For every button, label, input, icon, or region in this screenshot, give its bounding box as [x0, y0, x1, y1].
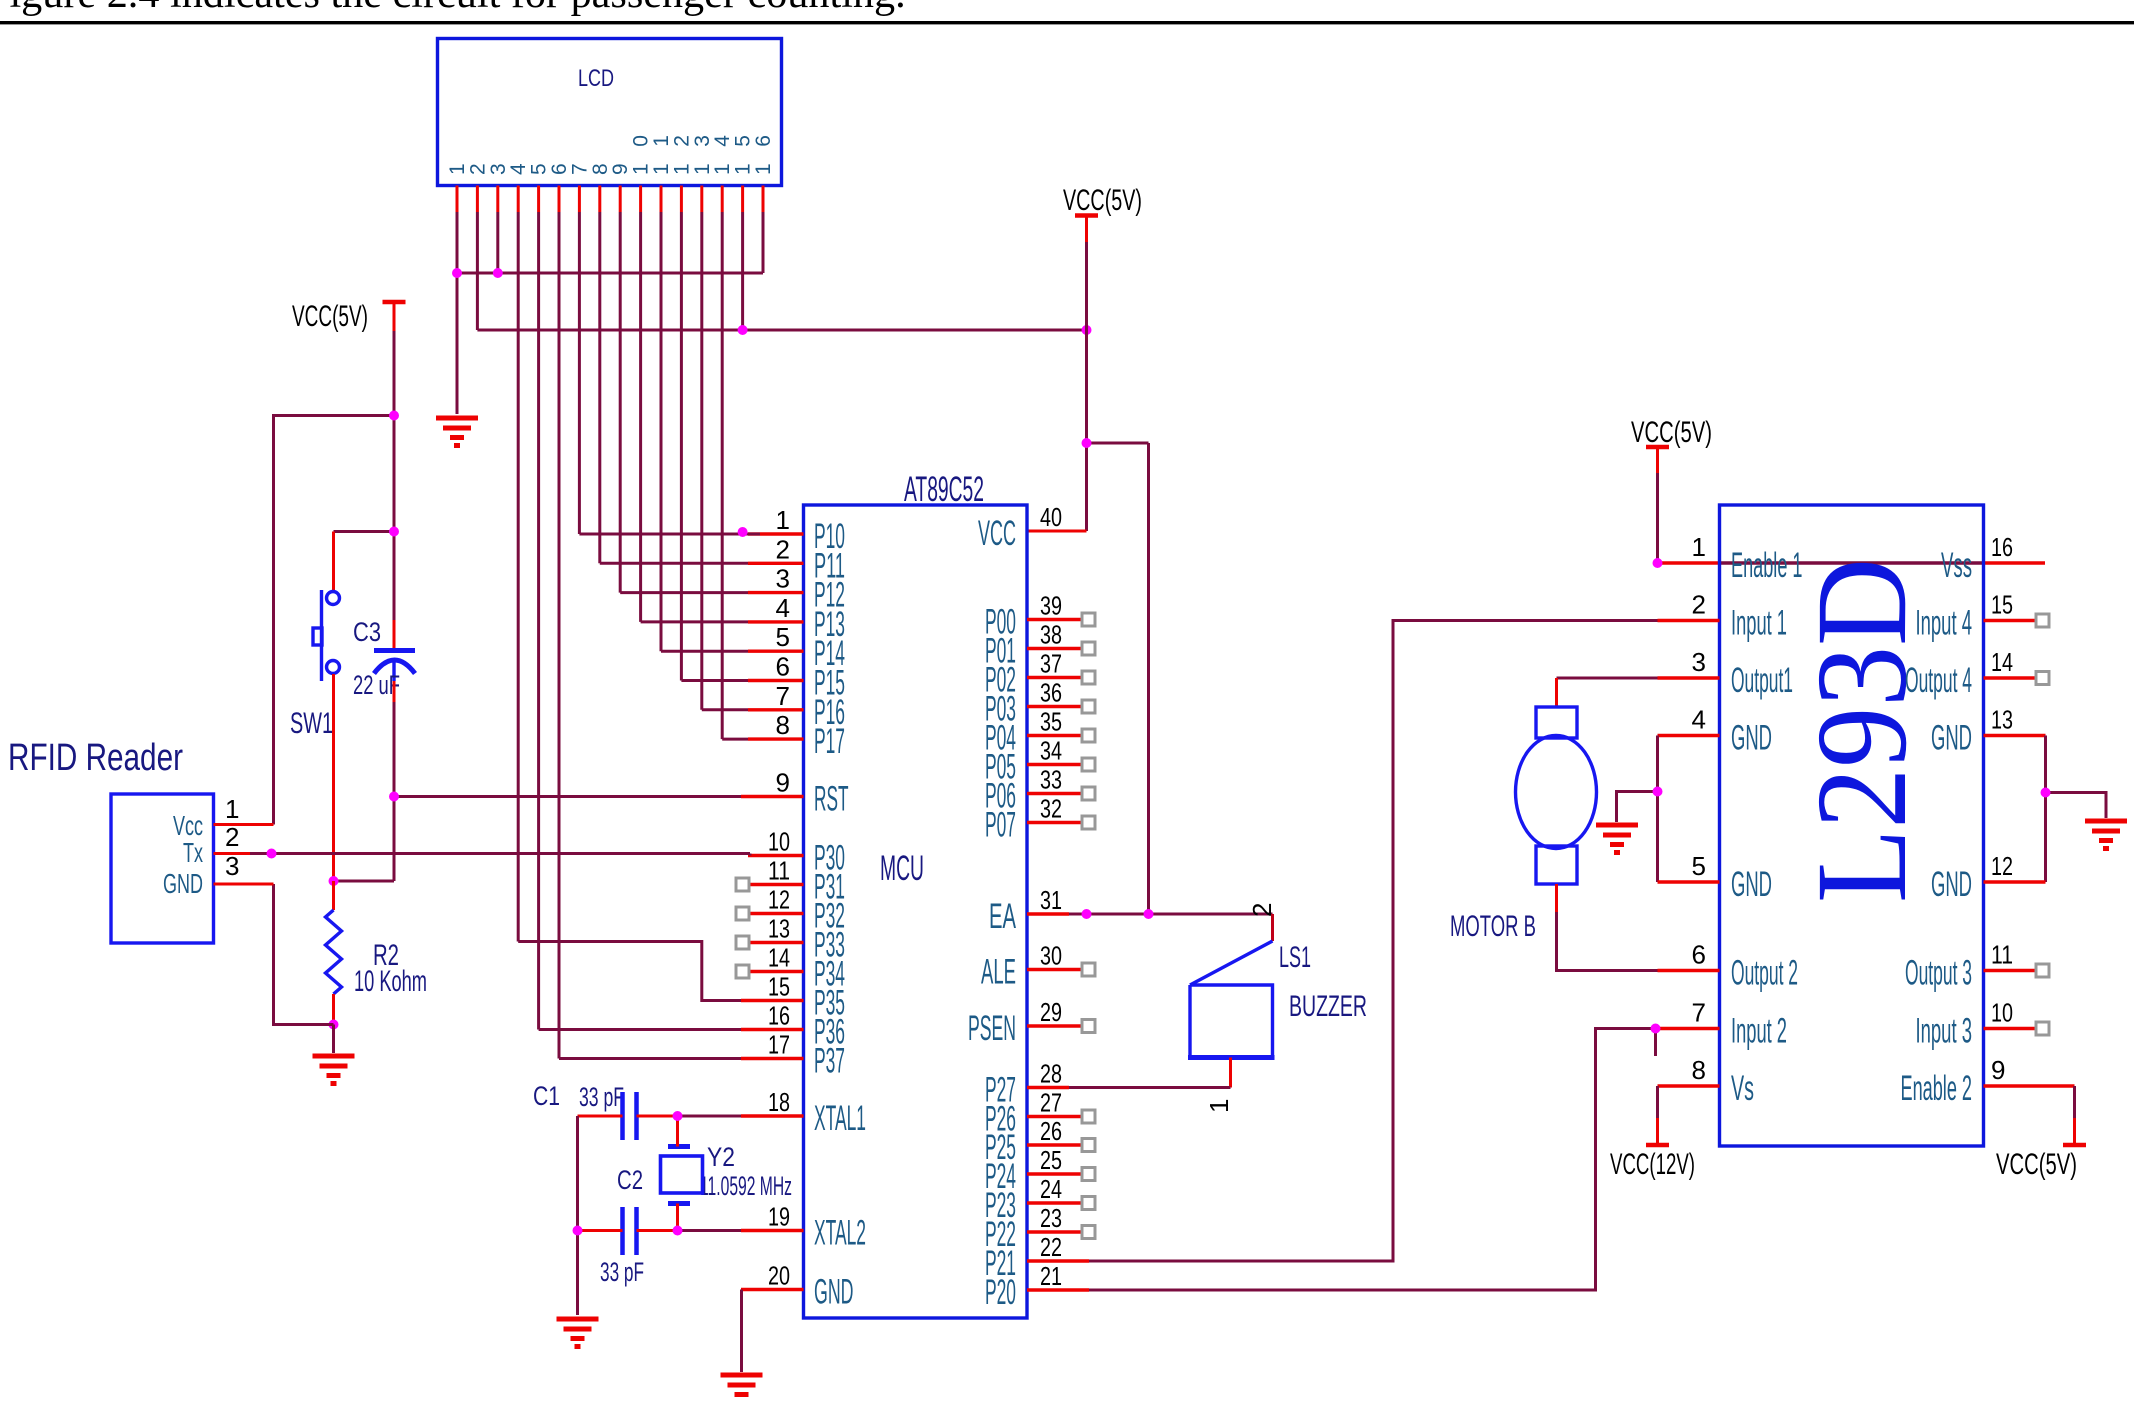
wire dangling stub below Input2 — [1654, 1031, 1657, 1056]
wire branch down to EA — [1147, 443, 1150, 914]
svg-text:12: 12 — [1991, 851, 2013, 881]
wire Output1 to motor — [1557, 677, 1658, 680]
svg-text:EA: EA — [989, 897, 1016, 936]
ground below MCU GND pin — [721, 1375, 763, 1395]
svg-text:VCC(5V): VCC(5V) — [1063, 184, 1142, 217]
svg-text:L293D: L293D — [1790, 558, 1934, 903]
wire buzzer top stub — [1271, 914, 1274, 941]
wire motor bottom to Output2 — [1555, 884, 1558, 912]
wire buzzer bottom stub — [1229, 1058, 1232, 1088]
node Tx dot — [267, 849, 277, 859]
svg-text:2: 2 — [776, 534, 790, 564]
wire C3/SW1 bottom joining — [334, 880, 395, 883]
svg-text:8: 8 — [776, 710, 790, 740]
svg-text:9: 9 — [1991, 1055, 2005, 1085]
wire Output2 stub — [1658, 969, 1720, 972]
wire branch to RFID Vcc — [274, 416, 395, 825]
svg-text:27: 27 — [1040, 1088, 1062, 1118]
svg-text:RFID Reader: RFID Reader — [8, 737, 183, 779]
svg-text:Input 3: Input 3 — [1916, 1012, 1973, 1051]
svg-text:3: 3 — [1692, 647, 1706, 677]
svg-text:VCC: VCC — [978, 514, 1016, 553]
svg-text:XTAL2: XTAL2 — [814, 1214, 866, 1253]
svg-text:11: 11 — [1991, 940, 2013, 970]
wire Input4 stub + square — [1984, 619, 2037, 622]
wire vcc bus — [477, 329, 1086, 332]
node vcc bus to vcc line — [1082, 325, 1092, 335]
svg-text:SW1: SW1 — [290, 707, 333, 740]
svg-text:7: 7 — [776, 681, 790, 711]
wire Input3 stub + square — [1984, 1027, 2037, 1030]
wires LCD pins7-14 down to P10-P17 rows — [578, 212, 581, 534]
svg-text:31: 31 — [1040, 885, 1062, 915]
LCD display box — [438, 39, 782, 186]
node stray dot on P10 wire — [738, 527, 748, 537]
node right gnd junction — [2041, 788, 2051, 798]
svg-text:8: 8 — [1692, 1055, 1706, 1085]
svg-text:7: 7 — [1692, 998, 1706, 1028]
wire crystal bottom stub — [676, 1204, 679, 1231]
wire R2 bottom to ground — [332, 1025, 335, 1054]
svg-text:14: 14 — [768, 943, 790, 973]
svg-text:Figure 2.4 indicates the circu: Figure 2.4 indicates the circuit for pas… — [0, 0, 906, 17]
wire vcc corner to MCU pin40 — [1027, 530, 1087, 533]
wire P20 route to Input 2 — [1089, 1029, 1656, 1291]
ground below R2 — [313, 1056, 355, 1086]
svg-text:GND: GND — [1931, 865, 1972, 904]
svg-text:VCC(5V): VCC(5V) — [292, 300, 368, 333]
svg-text:GND: GND — [163, 868, 203, 899]
wire LCD pin5 to P36 — [539, 1028, 741, 1031]
wire below C3 to reset node — [393, 681, 396, 702]
node vcc branch — [1082, 438, 1092, 448]
wire EA net — [1069, 913, 1273, 916]
svg-text:MOTOR B: MOTOR B — [1450, 910, 1536, 943]
svg-text:Output 3: Output 3 — [1905, 954, 1972, 993]
wire Output3 stub + square — [1984, 969, 2037, 972]
svg-text:GND: GND — [1931, 719, 1972, 758]
node EA dot A — [1082, 909, 1092, 919]
wire Input1 stub — [1658, 619, 1720, 622]
svg-text:P37: P37 — [814, 1042, 845, 1081]
svg-text:VCC(12V): VCC(12V) — [1610, 1148, 1695, 1181]
wire LCD pin3 down to gnd bus — [496, 212, 499, 273]
wire Enable2 to VCC(5V) — [1984, 1084, 2075, 1087]
wire gnd branch left — [1617, 792, 1658, 823]
svg-text:Input 4: Input 4 — [1916, 604, 1973, 643]
svg-text:19: 19 — [768, 1202, 790, 1232]
wire LCD pin6 down — [558, 212, 561, 1059]
ground right of L293D — [2085, 821, 2127, 851]
wire Enable1/Vss net across chip — [1658, 561, 1720, 564]
svg-text:36: 36 — [1040, 678, 1062, 708]
svg-text:39: 39 — [1040, 591, 1062, 621]
svg-text:32: 32 — [1040, 794, 1062, 824]
svg-text:AT89C52: AT89C52 — [904, 470, 984, 509]
svg-text:3: 3 — [776, 564, 790, 594]
wire LCD pin15 down to vcc bus — [741, 212, 744, 330]
svg-text:C1: C1 — [533, 1081, 560, 1111]
svg-text:VCC(5V): VCC(5V) — [1631, 416, 1712, 449]
svg-text:LCD: LCD — [578, 65, 614, 92]
wire vcc vertical reset net — [393, 331, 396, 620]
svg-text:GND: GND — [814, 1273, 854, 1312]
svg-text:2: 2 — [225, 822, 239, 852]
svg-text:35: 35 — [1040, 707, 1062, 737]
svg-text:5: 5 — [1692, 851, 1706, 881]
svg-text:Y2: Y2 — [707, 1142, 735, 1172]
svg-text:14: 14 — [1991, 647, 2013, 677]
wire Output1 stub — [1658, 676, 1720, 679]
svg-text:20: 20 — [768, 1261, 790, 1291]
wire XTAL2 net — [578, 1229, 623, 1232]
wire LCD pin6 to P37 — [559, 1057, 741, 1060]
svg-text:6: 6 — [1692, 940, 1706, 970]
svg-text:Output1: Output1 — [1731, 661, 1793, 700]
node sw1 top junction — [389, 527, 399, 537]
svg-text:Vss: Vss — [1941, 546, 1972, 585]
node xtal1 junction — [673, 1111, 683, 1121]
MCU left pin stubs — [748, 532, 804, 535]
svg-text:15: 15 — [1991, 590, 2013, 620]
svg-text:2: 2 — [1692, 590, 1706, 620]
svg-text:10: 10 — [1991, 998, 2013, 1028]
svg-text:P20: P20 — [985, 1273, 1016, 1312]
wire Output4 stub + square — [1984, 676, 2037, 679]
svg-text:Vs: Vs — [1731, 1069, 1754, 1108]
node vcc-rfid junction — [389, 411, 399, 421]
RFID Reader box — [111, 794, 214, 943]
wire GND4/GND5 bracket — [1658, 734, 1720, 737]
wire Input2 stub — [1656, 1027, 1720, 1030]
wire RFID GND stub — [214, 883, 274, 886]
svg-text:1: 1 — [1204, 1099, 1234, 1113]
svg-text:VCC(5V): VCC(5V) — [1996, 1148, 2077, 1181]
svg-text:10: 10 — [768, 827, 790, 857]
svg-text:11.0592 MHz: 11.0592 MHz — [700, 1171, 792, 1201]
svg-text:24: 24 — [1040, 1174, 1062, 1204]
wire RFID Tx to MCU P30 — [214, 852, 251, 855]
wire RFID GND to R2 bottom — [274, 884, 334, 1025]
svg-text:ALE: ALE — [981, 953, 1016, 992]
svg-text:Output 4: Output 4 — [1905, 661, 1972, 700]
wire SW1 bottom stub — [332, 674, 335, 881]
wire LCD pin1 down to ground — [456, 212, 459, 414]
svg-text:16: 16 — [768, 1001, 790, 1031]
wires LCD data to P10..P17 — [579, 533, 760, 536]
power VCC(5V) bottom right — [2063, 1143, 2086, 1148]
wire MCU GND down — [740, 1290, 743, 1373]
LCD pin stubs — [456, 186, 459, 213]
wire caps gnd vertical — [576, 1116, 579, 1315]
wire gnd bus — [457, 272, 763, 275]
svg-text:21: 21 — [1040, 1261, 1062, 1291]
svg-text:16: 16 — [1991, 532, 2013, 562]
svg-text:16: 16 — [752, 135, 775, 175]
node R2 bottom junction — [329, 1020, 339, 1030]
node C2 left junction — [573, 1226, 583, 1236]
svg-text:4: 4 — [1692, 705, 1706, 735]
MCU P31-P34 unconnected squares — [736, 878, 749, 891]
buzzer LS1 — [1188, 941, 1275, 1058]
svg-text:22: 22 — [1040, 1232, 1062, 1262]
power VCC(12V) — [1646, 1143, 1669, 1148]
svg-text:33: 33 — [1040, 765, 1062, 795]
svg-text:C2: C2 — [617, 1165, 643, 1195]
svg-text:10 Kohm: 10 Kohm — [354, 965, 427, 998]
svg-text:BUZZER: BUZZER — [1289, 990, 1367, 1023]
svg-text:18: 18 — [768, 1087, 790, 1117]
capacitor C1 — [623, 1092, 637, 1140]
wire P27 to buzzer — [1069, 1086, 1231, 1089]
svg-text:P17: P17 — [814, 722, 845, 761]
svg-text:29: 29 — [1040, 997, 1062, 1027]
wire LCD pin2 down to vcc bus — [476, 212, 479, 330]
svg-text:C3: C3 — [353, 617, 381, 647]
node pin1 gnd bus — [452, 268, 462, 278]
svg-text:13: 13 — [768, 914, 790, 944]
top rule — [0, 21, 2134, 24]
svg-text:3: 3 — [225, 851, 239, 881]
svg-text:Enable 1: Enable 1 — [1731, 546, 1803, 585]
svg-text:38: 38 — [1040, 620, 1062, 650]
wire LCD pin16 down to gnd bus — [762, 212, 765, 273]
svg-text:37: 37 — [1040, 649, 1062, 679]
wire crystal top stub — [676, 1116, 679, 1147]
ground left of L293D — [1596, 825, 1638, 855]
svg-text:GND: GND — [1731, 719, 1772, 758]
svg-text:40: 40 — [1040, 502, 1062, 532]
node enable1 vcc junction — [1653, 558, 1663, 568]
ground below C1/C2 — [557, 1319, 599, 1349]
wire vcc branch right — [1087, 442, 1149, 445]
svg-text:LS1: LS1 — [1279, 941, 1311, 974]
wire gnd branch right — [2046, 793, 2107, 819]
crystal Y2 — [661, 1147, 703, 1204]
svg-text:PSEN: PSEN — [968, 1009, 1016, 1048]
svg-text:23: 23 — [1040, 1203, 1062, 1233]
svg-text:MCU: MCU — [880, 849, 924, 888]
wire LCD pin4 down — [517, 212, 520, 942]
svg-text:13: 13 — [1991, 705, 2013, 735]
wire Vs to VCC(12V) — [1658, 1084, 1720, 1087]
motor MOTOR B — [1516, 707, 1597, 884]
svg-text:11: 11 — [768, 856, 790, 886]
svg-text:26: 26 — [1040, 1116, 1062, 1146]
svg-text:33 pF: 33 pF — [600, 1257, 644, 1287]
svg-text:RST: RST — [814, 780, 849, 819]
svg-text:Enable 2: Enable 2 — [1901, 1069, 1973, 1108]
svg-text:5: 5 — [776, 622, 790, 652]
svg-text:1: 1 — [225, 794, 239, 824]
svg-text:1: 1 — [776, 505, 790, 535]
wire vcc vertical down to MCU VCC — [1085, 242, 1088, 531]
wire LCD pin5 down — [537, 212, 540, 1030]
svg-text:Tx: Tx — [183, 837, 203, 868]
svg-text:33 pF: 33 pF — [579, 1082, 624, 1112]
svg-text:9: 9 — [776, 768, 790, 798]
node xtal2 junction — [673, 1226, 683, 1236]
svg-text:GND: GND — [1731, 865, 1772, 904]
svg-text:XTAL1: XTAL1 — [814, 1099, 866, 1138]
svg-text:17: 17 — [768, 1030, 790, 1060]
svg-text:Input 2: Input 2 — [1731, 1012, 1787, 1051]
node Input2 junction — [1651, 1024, 1661, 1034]
svg-text:12: 12 — [768, 885, 790, 915]
L293D driver box — [1720, 505, 1984, 1146]
node pin3 gnd bus — [493, 268, 503, 278]
svg-text:4: 4 — [776, 593, 790, 623]
svg-text:1: 1 — [1692, 532, 1706, 562]
svg-text:6: 6 — [776, 652, 790, 682]
switch SW1 — [313, 590, 340, 681]
capacitor C2 — [623, 1207, 637, 1255]
resistor R2 — [332, 881, 335, 910]
svg-text:25: 25 — [1040, 1145, 1062, 1175]
MCU AT89C52 box — [804, 505, 1028, 1318]
svg-text:Input 1: Input 1 — [1731, 604, 1787, 643]
wire LCD pin4 route to P35 — [518, 942, 741, 1001]
wire RFID Vcc stub — [214, 823, 274, 826]
ground below LCD pin1 — [436, 418, 478, 448]
node gnd bracket junction — [1653, 787, 1663, 797]
wire reset to MCU RST — [394, 795, 741, 798]
MCU right pin stubs — [1027, 618, 1082, 621]
wire branch to SW1 top — [334, 530, 395, 533]
node sw1/R2 junction — [329, 876, 339, 886]
svg-text:30: 30 — [1040, 941, 1062, 971]
wire P21 route to Input 1 — [1089, 621, 1658, 1262]
MCU right unconnected squares — [1082, 613, 1095, 626]
svg-text:P07: P07 — [985, 806, 1016, 845]
svg-text:28: 28 — [1040, 1059, 1062, 1089]
svg-text:Output 2: Output 2 — [1731, 954, 1798, 993]
node reset junction — [389, 792, 399, 802]
svg-text:34: 34 — [1040, 736, 1062, 766]
svg-text:15: 15 — [768, 972, 790, 1002]
wire GND13/GND12 bracket — [1984, 734, 2046, 737]
node pin15 vcc bus — [738, 325, 748, 335]
wire XTAL1 net — [578, 1115, 623, 1118]
node EA dot B — [1144, 909, 1154, 919]
